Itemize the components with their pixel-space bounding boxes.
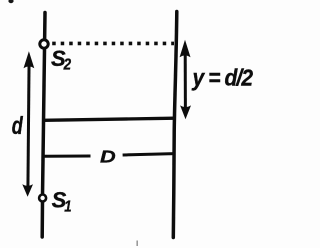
wire: middle horizontal line: [44, 118, 175, 120]
wire: right observation-screen vertical line: [173, 12, 177, 238]
svg-text:1: 1: [64, 198, 71, 215]
wire: dotted axis line from S2 to screen: [52, 42, 174, 46]
stray mark top-left: [8, 0, 13, 3]
svg-text:d: d: [12, 111, 24, 140]
stray mark bottom-center: [136, 241, 138, 247]
wire: left slit-screen vertical line: [42, 13, 45, 238]
source S2: [40, 40, 48, 48]
dimension arrow y = d/2 (double-headed, right): [180, 40, 191, 119]
source S1: [39, 195, 46, 202]
dimension D line: left segment: [44, 155, 91, 158]
svg-text:D: D: [100, 147, 116, 167]
svg-text:2: 2: [63, 57, 72, 74]
dimension D line: right segment: [123, 154, 175, 155]
svg-text:y = d/2: y = d/2: [192, 65, 253, 91]
dimension arrow d (double-headed, left): [22, 51, 34, 196]
